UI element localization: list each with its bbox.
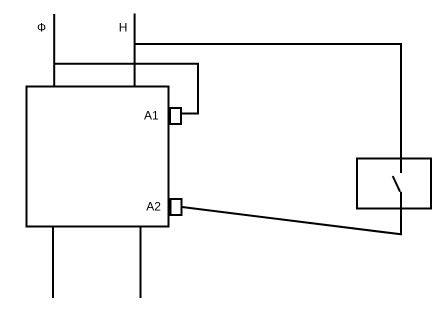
svg-text:Н: Н — [119, 21, 128, 35]
svg-text:A2: A2 — [146, 199, 161, 213]
svg-text:A1: A1 — [144, 108, 159, 122]
svg-text:Ф: Ф — [37, 21, 46, 35]
